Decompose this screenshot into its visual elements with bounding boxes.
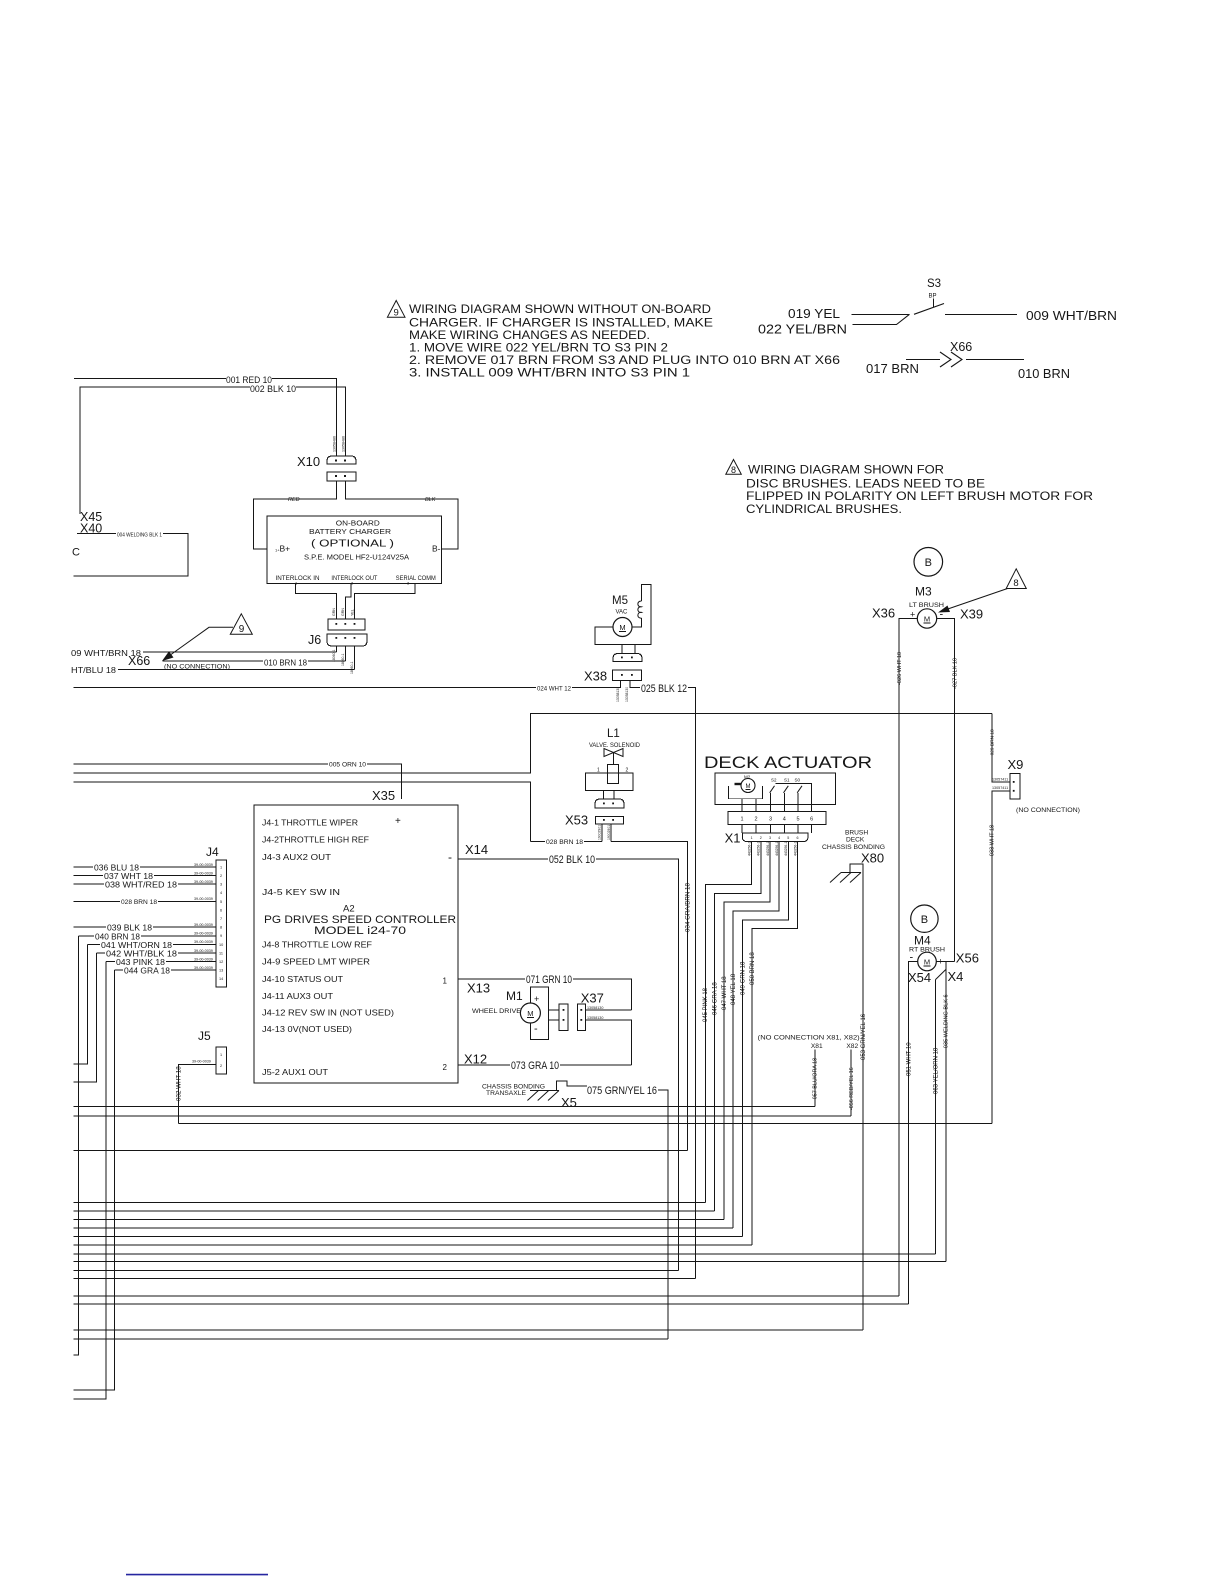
bus wire 052 BLK 10 horizontal [73,1270,678,1272]
wire X53 pin1 drop [601,824,603,841]
svg-text:-033 WHT 18: -033 WHT 18 [990,825,996,858]
svg-text:028 BRN 18: 028 BRN 18 [546,839,583,846]
motor M5 wiring loop [595,584,651,653]
svg-text:M: M [527,1009,533,1018]
svg-text:39-00-0039: 39-00-0039 [194,880,213,884]
svg-text:075 GRN/YEL 16: 075 GRN/YEL 16 [587,1085,657,1097]
wire interlock in to J6 pin1 [296,584,337,619]
wire 053 GRN/YEL 16 [862,873,864,1331]
svg-text:J4-12 REV SW IN (NOT USED): J4-12 REV SW IN (NOT USED) [262,1008,394,1018]
wire 004 WELDING BLK 1 [73,534,188,577]
svg-text:X10: X10 [297,454,320,469]
battery charger A? box [267,516,442,584]
svg-text:X80: X80 [861,851,884,866]
svg-text:1: 1 [597,768,600,774]
wire 002 BLK 10 [80,387,345,514]
svg-text:J4-5 KEY SW IN: J4-5 KEY SW IN [262,887,340,897]
bus wire 026 WHT 10 horizontal [73,1295,899,1297]
svg-text:1: 1 [220,1053,222,1057]
wire 010 BRN 18 [163,646,346,661]
svg-text:017 BRN: 017 BRN [866,362,919,376]
svg-text:S3: S3 [927,278,941,290]
connector J4 pin numbers [219,865,223,981]
svg-text:13058130: 13058130 [625,687,629,702]
wire 033 WHT 18 [992,791,1010,1124]
svg-text:X37: X37 [581,991,604,1006]
wire interlock out to J6 pin2 [345,584,351,619]
wire 051 WHT 10 [909,962,918,1305]
svg-text:6: 6 [810,817,813,823]
svg-text:443256-1: 443256-1 [766,842,770,856]
bus wire 050 BRN 18 horizontal [73,1244,752,1246]
svg-text:39-00-0039: 39-00-0039 [194,923,213,927]
motor M5 symbol [613,618,632,637]
svg-text:X35: X35 [372,788,395,803]
svg-text:X66: X66 [950,340,972,354]
wire 042 WHT/BLK 18 [73,953,216,1082]
svg-text:39-00-0039: 39-00-0039 [192,1060,211,1064]
svg-text:13057411: 13057411 [992,777,1008,781]
svg-text:443256-1: 443256-1 [747,842,751,856]
svg-text:3: 3 [769,836,771,840]
motor M4 symbol [918,952,937,971]
svg-text:022 YEL/BRN: 022 YEL/BRN [758,323,847,337]
svg-text:J4-3 AUX2 OUT: J4-3 AUX2 OUT [262,852,331,862]
wire X37 to 071 riser [585,1009,631,1011]
svg-text:010 BRN: 010 BRN [1018,367,1070,381]
bus wire 056 RED/YEL 16 horizontal [73,1115,851,1117]
note triangle 9 at X66 [230,614,252,635]
connector X38 receptacle [613,670,642,680]
svg-text:J4-1 THROTTLE WIPER: J4-1 THROTTLE WIPER [262,818,358,828]
svg-text:CYLINDRICAL BRUSHES.: CYLINDRICAL BRUSHES. [746,502,902,516]
svg-text:(NO CONNECTION X81, X82): (NO CONNECTION X81, X82) [758,1034,860,1041]
bus wire 025 BLK 12 horizontal [73,1278,695,1280]
svg-text:BRUSH: BRUSH [845,830,868,837]
svg-text:X9: X9 [1008,757,1024,772]
svg-text:3. INSTALL 009 WHT/BRN INTO S3: 3. INSTALL 009 WHT/BRN INTO S3 PIN 1 [409,366,690,380]
svg-text:9: 9 [239,624,245,635]
svg-text:B-: B- [432,544,441,554]
svg-text:052 BLK 10: 052 BLK 10 [549,854,595,866]
svg-text:-053 GRN/YEL 16: -053 GRN/YEL 16 [861,1013,867,1062]
svg-text:VAC: VAC [616,610,629,616]
svg-text:-049 GRN 18: -049 GRN 18 [740,961,746,997]
svg-text:443256-1: 443256-1 [793,842,797,856]
svg-text:2: 2 [443,1063,448,1072]
wire 044 GRA 18 [73,970,216,1390]
svg-text:YEL: YEL [350,609,354,616]
svg-text:9: 9 [394,308,399,319]
wire M2 to pins 1 2 [742,799,756,812]
note triangle 8 (disc brush note flag) [726,460,742,476]
svg-text:J5: J5 [198,1029,211,1043]
svg-text:8: 8 [1013,578,1018,589]
svg-text:M: M [619,623,625,632]
wire X54 X4 slash jog [936,970,946,980]
controller A2 pin function text [262,818,394,1078]
wire 032 WHT 18 [179,1064,217,1123]
wire 028 BRN 18 to solenoid [530,840,602,842]
svg-text:443256-1: 443256-1 [757,842,761,856]
svg-text:5: 5 [787,836,789,840]
svg-text:39-00-0039: 39-00-0039 [194,897,213,901]
svg-text:X66: X66 [128,654,150,668]
svg-text:M4: M4 [914,934,931,948]
bus wire 045 PINK 18 horizontal [73,1202,705,1204]
svg-text:10: 10 [219,943,223,947]
motor M5 plug cap [613,654,642,662]
solenoid L1 stem [613,753,615,765]
wire 027 BLK 10 [937,619,955,962]
svg-text:J4-2THROTTLE HIGH REF: J4-2THROTTLE HIGH REF [262,835,369,845]
circuit breaker B above M3 [914,548,943,577]
svg-text:GRN: GRN [332,608,336,616]
wire 045 PINK 18 from X1-1 [705,842,751,1203]
svg-text:071 GRN 10: 071 GRN 10 [526,974,572,986]
svg-text:X36: X36 [872,606,895,621]
svg-text:C: C [72,547,80,559]
svg-text:-063 YEL/ORN 18: -063 YEL/ORN 18 [934,1047,940,1096]
svg-text:5: 5 [796,817,799,823]
svg-text:3: 3 [220,883,222,887]
svg-text:13058486: 13058486 [342,436,346,452]
svg-text:019 YEL: 019 YEL [788,307,840,321]
hyperlink underline mark [126,1574,268,1576]
wire X37 to 073 riser [585,1020,631,1065]
svg-text:443256-1: 443256-1 [784,842,788,856]
actuator switch bus [775,784,811,812]
switch S3 pole tick [932,299,934,308]
svg-text:-050 BRN 18: -050 BRN 18 [750,952,756,987]
circuit breaker B above M4 [911,905,938,932]
wire key power feed lower to solenoid [73,782,530,841]
svg-text:BATTERY CHARGER: BATTERY CHARGER [309,527,391,536]
bus wire 035 WELDING BLK 6 horizontal [73,1261,945,1263]
svg-text:-026 WHT 10: -026 WHT 10 [897,652,903,685]
wire serial comm to J6 pin3 [355,584,416,619]
svg-text:X13: X13 [467,981,490,996]
svg-text:3: 3 [769,817,772,823]
bus wire 063 YEL/ORN 18 horizontal [73,1253,935,1255]
svg-text:INTERLOCK IN: INTERLOCK IN [276,575,320,582]
svg-text:X12: X12 [464,1052,487,1067]
note 9 text: wiring diagram shown without on-board charger [409,302,840,380]
wire 024 WHT 12 [73,680,620,687]
svg-text:GRN: GRN [341,608,345,616]
wire 049 GRN 18 from X1-5 [743,842,789,1237]
svg-text:WIRING DIAGRAM SHOWN WITHOUT O: WIRING DIAGRAM SHOWN WITHOUT ON-BOARD [409,302,711,316]
note 8 leader arrow to M3 [941,589,1008,612]
wire 041 WHT/ORN 18 [73,944,216,1064]
connector J5 receptacle [216,1047,227,1074]
svg-text:13058486: 13058486 [333,436,337,452]
svg-text:9: 9 [220,934,222,938]
svg-text:18060-1: 18060-1 [350,661,354,674]
bus wire 053 GRN/YEL 16 horizontal [73,1329,863,1331]
motor M1 body [530,987,548,1040]
wire 001 RED 10 [74,378,336,456]
svg-text:DECK: DECK [846,837,865,844]
bus wire 049 GRN 18 horizontal [73,1236,742,1238]
svg-text:443256-1: 443256-1 [775,842,779,856]
solenoid L1 valve symbol [604,749,623,757]
deck actuator box [715,773,836,805]
connector J6 mating receptacle [328,619,365,630]
svg-text:044 GRA 18: 044 GRA 18 [124,966,170,976]
wire RED charger positive [254,481,337,549]
svg-text:1: 1 [220,865,222,869]
wire X53 pin2 drop [610,824,612,841]
svg-text:VALVE. SOLENOID: VALVE. SOLENOID [589,742,640,749]
svg-text:13: 13 [219,969,223,973]
bus wire 057 BLU/ORA 18 horizontal [73,1106,814,1108]
svg-text:X56: X56 [956,951,979,966]
battery charger title text [304,519,409,562]
bus wire 047 WHT 18 horizontal [73,1219,724,1221]
wire 047 WHT 18 from X1-3 [724,842,770,1220]
svg-text:39-00-0039: 39-00-0039 [194,940,213,944]
svg-text:2: 2 [220,1064,222,1068]
wire 005 ORN 10 [73,764,401,799]
wire 039 BLK 18 [73,926,216,928]
wire 034 GRA/BRN 18 [611,841,688,1150]
svg-text:005 ORN 10: 005 ORN 10 [329,762,366,769]
wire 043 PINK 18 [73,962,216,1399]
controller A2 box [254,805,458,1083]
svg-text:X53: X53 [565,813,588,828]
wire 009 WHT/BRN from S3 [945,313,1017,315]
motor M1 symbol [520,1003,540,1023]
solenoid L1 plug cap [595,799,624,808]
wire 056 RED/YEL 16 [850,1050,852,1116]
ground X5 chassis symbol [557,1081,588,1091]
motor M5 coil [638,601,642,618]
svg-text:13058130: 13058130 [587,1016,603,1020]
svg-text:18060-1: 18060-1 [341,653,345,666]
svg-text:5: 5 [220,900,222,904]
svg-text:-: - [448,850,452,864]
solenoid L1 tab to plug [604,791,615,800]
svg-text:M5: M5 [612,595,628,607]
svg-text:-056 RED/YEL 16: -056 RED/YEL 16 [849,1067,855,1110]
svg-text:L1: L1 [607,728,620,740]
bus wire 046 GRA 18 horizontal [73,1210,714,1212]
svg-text:1: 1 [443,977,448,986]
note triangle 9 (charger note flag) [387,301,405,319]
wire 073 GRA 10 [458,1064,632,1066]
note triangle 8 at M3 [1006,569,1026,589]
svg-text:S.P.E. MODEL HF2-U124V25A: S.P.E. MODEL HF2-U124V25A [304,553,409,562]
svg-text:13057411: 13057411 [992,786,1008,790]
svg-text:J4-8 THROTTLE LOW REF: J4-8 THROTTLE LOW REF [262,940,372,950]
svg-text:-: - [534,1023,538,1035]
svg-text:S2: S2 [771,778,777,783]
bus wire 048 YEL 18 horizontal [73,1227,733,1229]
bus wire 032/033 WHT 18 horizontal [179,1122,992,1124]
charger pin labels interlock/serial [276,575,436,582]
wire 037 WHT 18 [73,875,216,877]
svg-text:S0: S0 [795,778,801,783]
svg-text:39-00-0039: 39-00-0039 [194,949,213,953]
svg-text:39-00-0039: 39-00-0039 [194,932,213,936]
svg-text:39-00-0039: 39-00-0039 [194,966,213,970]
svg-text:004 WELDING BLK 1: 004 WELDING BLK 1 [117,532,162,538]
wire 040 BRN 18 [73,936,216,1355]
svg-text:19002901: 19002901 [607,825,611,840]
svg-text:009 WHT/BRN: 009 WHT/BRN [1026,309,1117,323]
svg-text:B: B [921,914,928,926]
svg-text:12: 12 [219,960,223,964]
svg-text:2: 2 [626,768,629,774]
wire 071 GRN 10 [458,979,632,1010]
wire M4 plus to 027 [936,961,954,963]
svg-text:073 GRA 10: 073 GRA 10 [511,1060,559,1072]
switch S1 blade and leg [784,786,789,793]
svg-text:-032 WHT 18: -032 WHT 18 [176,1066,183,1103]
wire 050 BRN 18 from X1-6 [752,842,798,1246]
leader arrow from triangle 9 to X66 [164,627,233,659]
svg-text:028 BRN 18: 028 BRN 18 [121,899,157,906]
connector J4 pin part numbers [194,863,213,970]
svg-text:J4-9 SPEED LMT WIPER: J4-9 SPEED LMT WIPER [262,957,370,967]
svg-text:HT/BLU 18: HT/BLU 18 [71,665,116,675]
svg-text:8: 8 [731,465,736,475]
svg-text:2: 2 [754,817,757,823]
svg-text:MODEL i24-70: MODEL i24-70 [314,925,406,937]
bus wire 051 WHT 10 horizontal [73,1303,908,1305]
svg-text:X5: X5 [561,1095,577,1110]
wire 028 BRN 18 to J4-5 [73,900,216,902]
wire 022 YEL/BRN into S3 [853,314,910,324]
svg-text:J4-13 0V(NOT USED): J4-13 0V(NOT USED) [262,1024,352,1034]
svg-text:DECK ACTUATOR: DECK ACTUATOR [704,754,872,772]
svg-text:A2: A2 [343,904,355,915]
svg-text:-051 WHT 10: -051 WHT 10 [907,1042,913,1078]
svg-text:025 BLK 12: 025 BLK 12 [641,683,687,695]
svg-text:INTERLOCK OUT: INTERLOCK OUT [331,575,377,582]
svg-text:TRANSAXLE: TRANSAXLE [486,1090,527,1097]
switch S2 blade and leg [770,786,775,793]
svg-text:RED: RED [288,497,300,503]
svg-text:( OPTIONAL ): ( OPTIONAL ) [311,538,394,550]
svg-text:-045 PINK 18: -045 PINK 18 [703,987,709,1024]
svg-text:J4-10 STATUS OUT: J4-10 STATUS OUT [262,974,343,984]
svg-text:-047 WHT 18: -047 WHT 18 [722,976,728,1012]
svg-text:SERIAL COMM: SERIAL COMM [396,575,436,582]
connector X10 plug cap [327,456,356,464]
wire 036 BLU 18 [73,866,216,868]
motor M3 symbol [917,609,936,628]
svg-text:BLK: BLK [425,497,436,503]
ground X80 chassis symbol [850,864,863,873]
wire 029 BRN 18 [992,713,1010,782]
wire 075 GRN/YEL 16 [658,1090,668,1339]
wire 026 WHT 10 [899,619,917,1296]
svg-text:X39: X39 [960,607,983,622]
svg-text:-034 GRA/BRN 18: -034 GRA/BRN 18 [684,883,691,934]
svg-text:X81: X81 [811,1043,823,1050]
svg-text:-027 BLK 10: -027 BLK 10 [953,658,959,689]
svg-text:010 BRN 18: 010 BRN 18 [264,658,307,668]
svg-text:FLIPPED IN POLARITY ON LEFT BR: FLIPPED IN POLARITY ON LEFT BRUSH MOTOR … [746,489,1093,503]
svg-text:4: 4 [783,817,786,823]
actuator pin strip [728,812,826,825]
solenoid L1 coil body [608,765,619,784]
connector X66 chevron symbol [940,352,962,367]
wire 063 YEL/ORN 18 [935,980,937,1254]
svg-text:038 WHT/RED 18: 038 WHT/RED 18 [105,880,177,890]
svg-text:1: 1 [751,836,753,840]
svg-text:B: B [925,557,932,569]
svg-text:S1: S1 [784,778,790,783]
connector J6 cap [327,634,367,646]
wire key power feed upper [73,713,991,773]
svg-text:BP: BP [929,294,937,300]
svg-text:-046 GRA 18: -046 GRA 18 [713,982,719,1017]
svg-text:M: M [924,615,930,624]
connector X10 receptacle [327,472,356,481]
wire 038 WHT/RED 18 [73,883,216,885]
svg-text:J4: J4 [206,845,219,859]
wire 048 YEL 18 from X1-4 [733,842,779,1229]
wire 019 YEL into S3 [852,313,910,315]
wire 017 BRN [906,359,940,361]
svg-text:-057 BLU/ORA 18: -057 BLU/ORA 18 [813,1058,819,1101]
connector J4 receptacle [216,860,227,987]
connector X37 halves [559,1004,568,1030]
wire 057 BLU/ORA 18 [814,1050,816,1107]
svg-text:B+: B+ [280,544,291,554]
svg-text:-048 YEL 18: -048 YEL 18 [731,973,737,1007]
wire M1 to X37 [549,1010,559,1020]
svg-text:+: + [534,994,539,1004]
svg-text:J4-11 AUX3 OUT: J4-11 AUX3 OUT [262,991,333,1001]
svg-text:1: 1 [740,817,743,823]
svg-text:(NO CONNECTION): (NO CONNECTION) [1016,807,1080,814]
svg-text:2: 2 [760,836,762,840]
svg-text:X82: X82 [846,1043,858,1050]
svg-text:19002901: 19002901 [598,825,602,840]
svg-text:M: M [924,958,930,967]
svg-text:X4: X4 [948,969,964,984]
svg-text:13058130: 13058130 [616,687,620,702]
svg-text:8: 8 [220,926,222,930]
switch S0 blade and leg [797,786,802,793]
wire 035 WELDING BLK 6 [945,962,947,1262]
connector X1 cap [742,833,808,842]
wire BLK charger negative [345,481,458,549]
svg-text:X38: X38 [584,669,607,684]
svg-text:13058130: 13058130 [587,1006,603,1010]
svg-text:WIRING DIAGRAM SHOWN FOR: WIRING DIAGRAM SHOWN FOR [748,463,944,477]
bus wire 075 GRN/YEL 16 horizontal [73,1338,668,1340]
svg-text:4: 4 [220,891,222,895]
svg-text:X54: X54 [908,970,931,985]
bus wire 034 GRA/BRN 18 horizontal [73,1149,687,1151]
connector X9 receptacle [1010,773,1020,799]
svg-text:WHEEL DRIVE: WHEEL DRIVE [472,1008,522,1015]
svg-text:024 WHT 12: 024 WHT 12 [537,685,571,692]
svg-text:-029 BRN 18: -029 BRN 18 [990,729,996,757]
wires strip to X1 [742,825,812,834]
svg-text:11: 11 [219,951,223,955]
wire 046 GRA 18 from X1-2 [715,842,761,1212]
wire 052 BLK 10 [458,859,679,1271]
svg-text:7: 7 [220,917,222,921]
svg-text:6: 6 [797,836,799,840]
svg-text:M1: M1 [506,989,523,1003]
